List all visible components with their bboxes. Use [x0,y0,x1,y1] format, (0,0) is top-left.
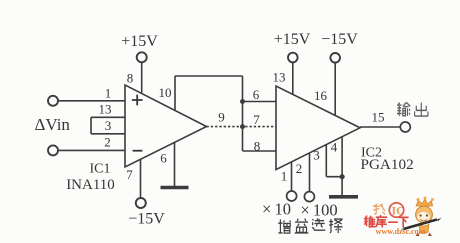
wire node 9 dashed output [207,126,276,128]
node junction dot pin6 bus [240,99,245,104]
wire pin13 supply IC2 [292,62,294,94]
svg-text:1: 1 [105,86,112,101]
net label output (Chinese: shu chu) [397,102,410,116]
char ze [329,219,342,233]
svg-text:6: 6 [253,87,260,102]
wire pin1 gain select x10 [291,162,293,191]
op-amp U1 IC1 INA110 triangle [125,85,207,167]
watermark red ring [389,203,403,217]
svg-text:−15V: −15V [128,211,165,228]
svg-text:9: 9 [218,110,225,125]
wire pin2 gain select x100 [309,153,311,191]
svg-text:www.dzsc.com: www.dzsc.com [376,227,426,236]
op-amp U2 IC2 PGA102 triangle [276,86,360,170]
gain select label (Chinese: zeng yi xuan ze) [278,218,342,233]
minus symbol IC1 [133,150,143,152]
wire pin15 output [360,126,400,128]
svg-text:3: 3 [105,118,112,133]
svg-text:15: 15 [372,110,385,125]
watermark logo dzsc [365,197,442,237]
svg-text:16: 16 [314,88,328,103]
svg-text:3: 3 [313,148,320,163]
watermark mascot head [416,206,433,223]
svg-text:+15V: +15V [274,31,311,48]
watermark top orange character wo [373,204,384,214]
watermark red character wei [365,216,408,227]
plus symbol IC1 [132,95,143,106]
svg-text:2: 2 [296,161,303,176]
wire pin8 supply [141,62,143,93]
wire bus vertical [242,76,244,151]
svg-text:13: 13 [99,102,112,117]
+15V terminal circle IC1 [137,52,147,62]
wire pin6 IC2 [243,101,277,103]
wire pin6 IC1 ground drop [174,142,176,186]
watermark mascot body and legs [419,224,429,233]
svg-text:4: 4 [331,139,338,154]
wire pin16 supply IC2 [334,63,336,116]
watermark mascot pen [404,220,438,230]
svg-text:× 10: × 10 [262,200,291,219]
svg-text:8: 8 [127,71,134,86]
wire strap vertical [90,117,92,134]
svg-text:INA110: INA110 [66,177,115,193]
watermark red character ku [376,216,386,227]
input terminal circle bottom (-) [48,145,58,155]
input terminal circle top (+) [48,96,58,106]
svg-text:6: 6 [160,151,167,166]
svg-text:IC1: IC1 [90,162,111,177]
watermark mascot crown [402,197,442,237]
svg-text:7: 7 [126,167,133,182]
watermark red character yi [389,221,397,223]
ground IC2 bar [329,195,358,199]
wire pin2 input [58,149,125,151]
watermark red character xia [399,217,408,226]
wire pin4 ground drop [341,137,343,195]
wire pin3 to pin4 horizontal [326,176,342,178]
svg-text:+15V: +15V [121,33,158,50]
svg-text:1: 1 [281,169,288,184]
wire pin7 supply drop [140,159,142,198]
svg-text:PGA102: PGA102 [361,156,414,173]
ground IC1 bar [161,186,189,190]
wire pin13 strap top [91,116,125,118]
wire pin3 drop [325,145,327,177]
svg-text:13: 13 [273,70,286,85]
svg-text:ΔVin: ΔVin [35,115,71,134]
wire pin1 input [58,100,125,102]
wire pin10 vertical [174,76,176,111]
svg-text:8: 8 [254,139,261,154]
wire top connector pin10 to bus [175,75,243,77]
+15V terminal circle IC2 [288,53,298,63]
terminal circle x10 [287,191,297,201]
char zeng [278,219,290,233]
-15V terminal circle IC2 [330,53,340,63]
terminal circle x100 [304,192,314,202]
output terminal circle [400,122,410,132]
node junction dot pin7 bus [240,124,245,129]
node junction dot pin3 pin4 [340,174,345,179]
svg-text:−15V: −15V [321,31,358,48]
svg-text:10: 10 [159,85,172,100]
svg-text:7: 7 [253,112,260,127]
wire pin8 IC2 [243,150,277,152]
-15V terminal circle IC1 [136,198,146,208]
wire pin3 strap bottom [91,133,125,135]
svg-text:2: 2 [104,134,111,149]
svg-text:× 100: × 100 [300,201,337,220]
char xuan [312,218,325,230]
char yi [295,219,309,233]
